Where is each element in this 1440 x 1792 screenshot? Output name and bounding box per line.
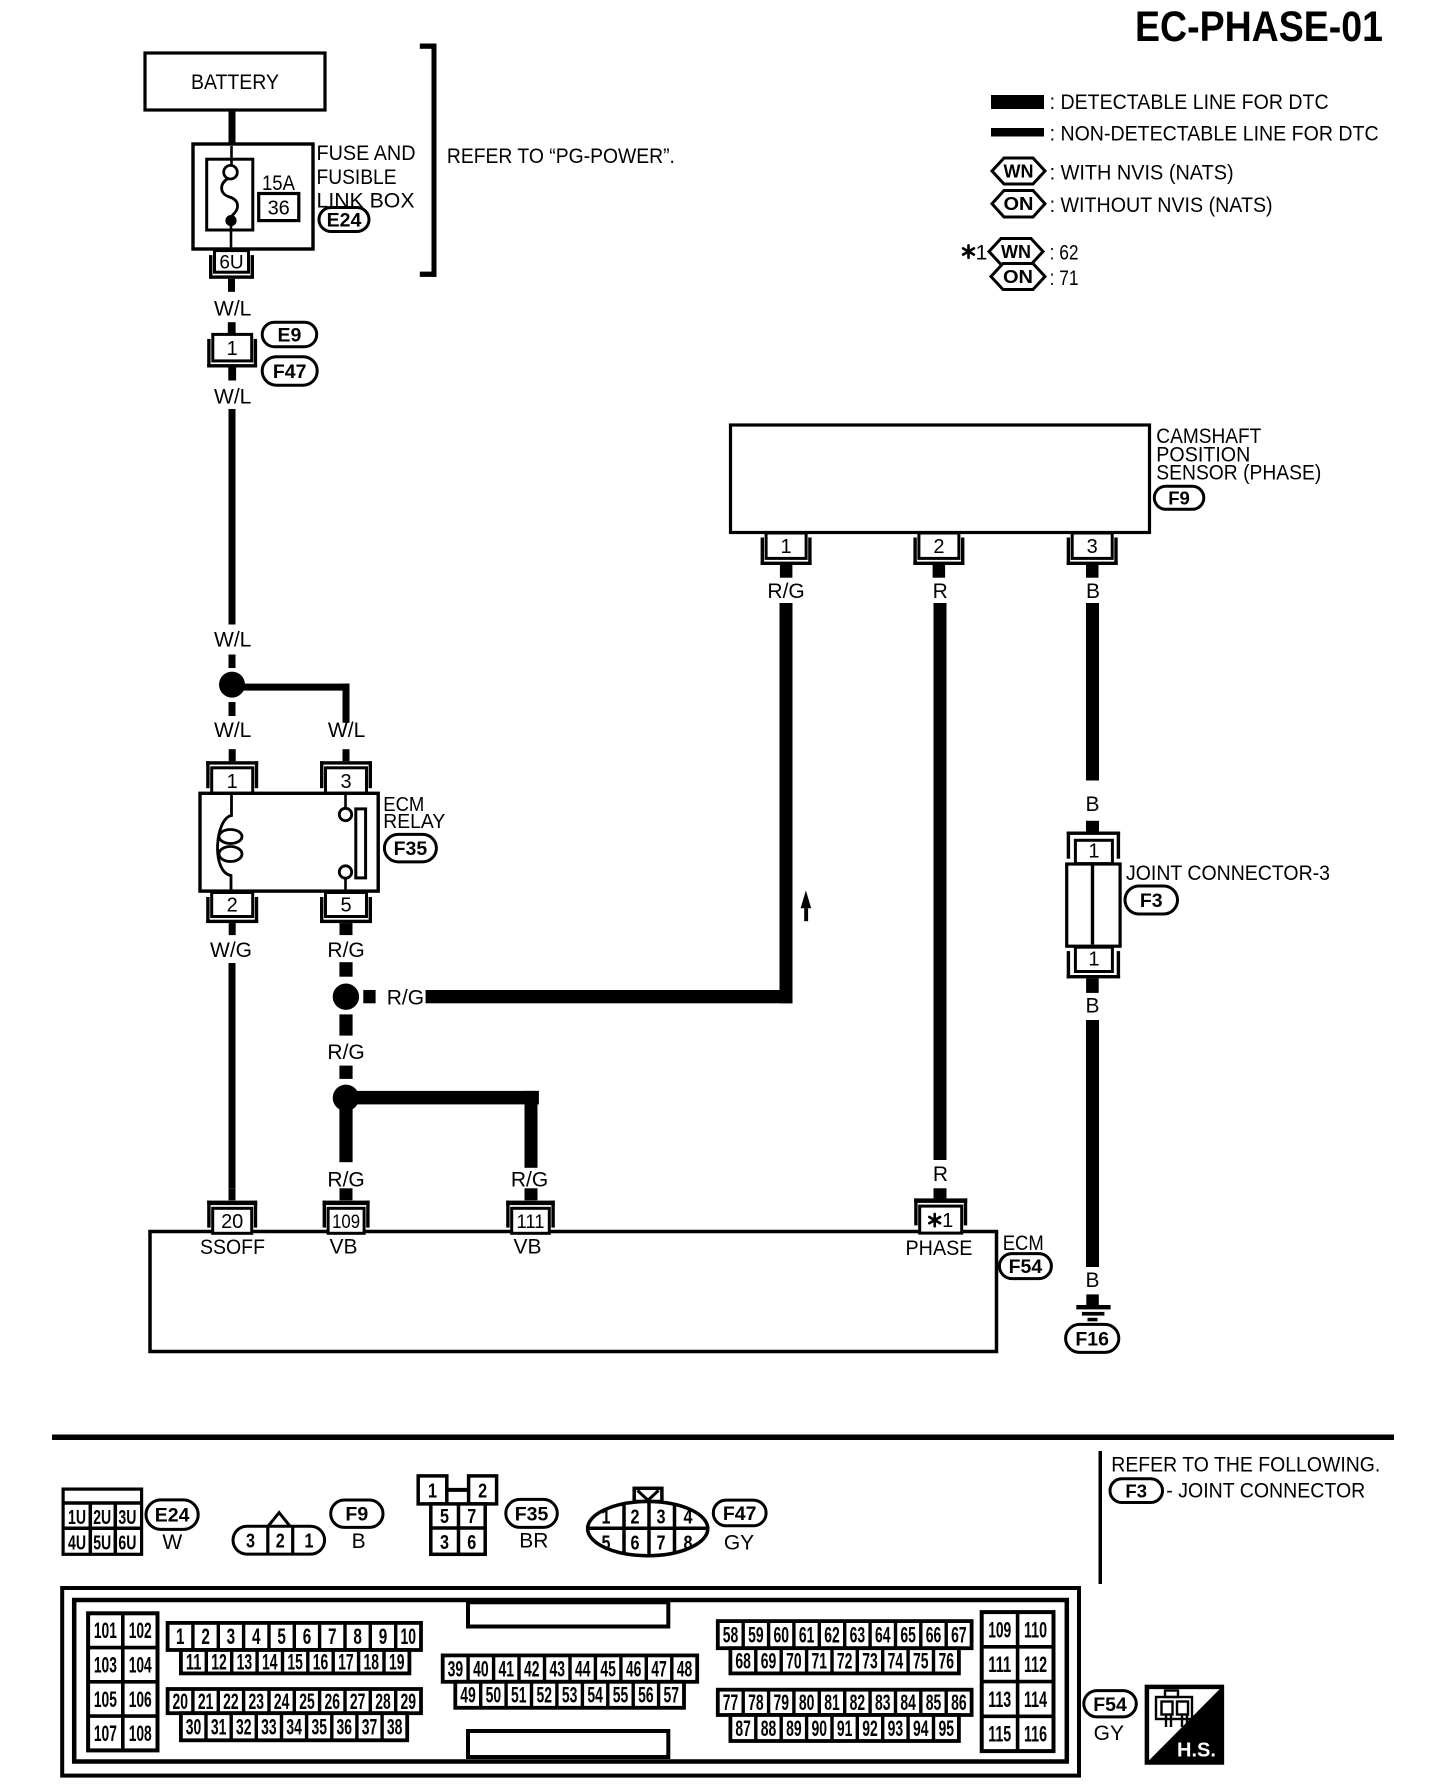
svg-text:3: 3: [246, 1531, 255, 1553]
connector E9/F47 pin 1: [213, 334, 252, 361]
svg-text:FUSIBLE: FUSIBLE: [317, 166, 397, 189]
svg-text:86: 86: [951, 1690, 967, 1715]
svg-text:1: 1: [781, 536, 792, 558]
svg-text:E9: E9: [277, 325, 301, 347]
relay pin 3: [326, 768, 367, 794]
svg-text:54: 54: [587, 1683, 603, 1708]
svg-text:R/G: R/G: [511, 1169, 548, 1192]
svg-text:20: 20: [221, 1211, 243, 1233]
svg-text:R/G: R/G: [327, 1169, 364, 1192]
svg-text:F47: F47: [723, 1503, 757, 1525]
wire W/L dash: [229, 655, 236, 669]
joint connector-3 F3: [1067, 832, 1120, 835]
svg-text:1: 1: [305, 1531, 314, 1553]
svg-text:15: 15: [287, 1650, 303, 1675]
svg-text:VB: VB: [513, 1236, 541, 1259]
svg-text:66: 66: [926, 1623, 942, 1648]
svg-text:F9: F9: [345, 1504, 368, 1526]
ECM pins 39-48: [443, 1655, 698, 1681]
wire W/L battery to fuse box: [229, 110, 236, 144]
svg-text:35: 35: [311, 1715, 327, 1740]
ECM pin 20 SSOFF: [229, 1188, 236, 1200]
ground symbol: [1076, 1305, 1110, 1309]
svg-text:1: 1: [602, 1506, 611, 1528]
svg-text:5: 5: [602, 1532, 611, 1554]
svg-text:R/G: R/G: [767, 580, 804, 603]
svg-text:F3: F3: [1125, 1480, 1147, 1501]
svg-text:91: 91: [837, 1716, 853, 1741]
svg-text:15A: 15A: [262, 172, 295, 195]
relay switch contacts: [344, 793, 347, 808]
separator line: [52, 1435, 1394, 1441]
legend: ON 71: [991, 264, 1045, 290]
svg-text:B: B: [352, 1530, 366, 1553]
F54 oval GY: [1084, 1691, 1137, 1717]
svg-text:1U: 1U: [68, 1507, 86, 1529]
connector face F35: [418, 1476, 447, 1504]
svg-text:109: 109: [332, 1212, 360, 1233]
wire W/L long segment: [229, 409, 236, 625]
svg-text:JOINT CONNECTOR-3: JOINT CONNECTOR-3: [1126, 862, 1330, 885]
svg-text:R: R: [933, 1163, 948, 1186]
wire R/G dash: [339, 962, 352, 977]
relay pin 2: [212, 893, 253, 917]
svg-text:103: 103: [94, 1653, 117, 1678]
svg-text:R: R: [933, 580, 948, 603]
fuse 15A 36: [207, 159, 253, 230]
svg-text:3: 3: [657, 1506, 666, 1528]
svg-text:77: 77: [723, 1690, 739, 1715]
svg-text:38: 38: [387, 1715, 403, 1740]
svg-text:65: 65: [900, 1623, 916, 1648]
svg-text:68: 68: [735, 1649, 751, 1674]
ECM pin 109 VB: [340, 1188, 353, 1200]
svg-text:21: 21: [198, 1689, 214, 1714]
legend: WN with NVIS (NATS): [992, 158, 1045, 184]
svg-text:H.S.: H.S.: [1177, 1740, 1216, 1762]
svg-text:1: 1: [976, 242, 988, 265]
svg-text:WN: WN: [1001, 242, 1031, 262]
svg-text:72: 72: [837, 1649, 853, 1674]
svg-text:GY: GY: [724, 1531, 754, 1554]
ECM pins 49-57: [455, 1682, 684, 1708]
wire R sensor pin 2 to ECM PHASE: [934, 603, 947, 1160]
svg-text:F47: F47: [273, 361, 307, 383]
svg-text:PHASE: PHASE: [906, 1237, 973, 1260]
svg-text:112: 112: [1024, 1652, 1047, 1677]
battery: [145, 53, 325, 110]
svg-text:33: 33: [261, 1715, 277, 1740]
connector 6U: [215, 251, 249, 273]
svg-text:11: 11: [186, 1650, 202, 1675]
svg-text:VB: VB: [329, 1236, 357, 1259]
svg-text:- JOINT CONNECTOR: - JOINT CONNECTOR: [1166, 1480, 1365, 1503]
svg-text:76: 76: [938, 1649, 954, 1674]
svg-text:45: 45: [600, 1656, 616, 1681]
ECM pins 58-67: [718, 1621, 972, 1648]
svg-text:25: 25: [299, 1689, 315, 1714]
svg-text:27: 27: [350, 1689, 366, 1714]
svg-text:F3: F3: [1140, 890, 1163, 912]
svg-text:3: 3: [340, 771, 351, 793]
svg-text:111: 111: [517, 1212, 545, 1233]
svg-text:3: 3: [440, 1532, 449, 1554]
svg-text:63: 63: [850, 1623, 866, 1648]
svg-text:95: 95: [938, 1716, 954, 1741]
svg-text:W/G: W/G: [210, 939, 252, 962]
legend: non-detectable line for DTC: [991, 128, 1044, 137]
ECM pin *1 PHASE: [934, 1188, 947, 1200]
svg-text:93: 93: [888, 1716, 904, 1741]
svg-text:67: 67: [951, 1623, 967, 1648]
svg-text:W/L: W/L: [328, 719, 365, 742]
svg-text:W/L: W/L: [214, 385, 251, 408]
svg-text:LINK BOX: LINK BOX: [317, 190, 415, 213]
svg-text:47: 47: [651, 1656, 667, 1681]
wire R/G dash below junction: [339, 1014, 352, 1035]
svg-text:W/L: W/L: [214, 298, 251, 321]
svg-text:44: 44: [575, 1656, 591, 1681]
relay pin 5: [326, 893, 367, 917]
fuse and fusible link box E24: [193, 144, 313, 249]
svg-text:1: 1: [176, 1624, 185, 1649]
svg-text:71: 71: [812, 1649, 828, 1674]
svg-text:30: 30: [186, 1715, 202, 1740]
svg-text:5: 5: [440, 1506, 449, 1528]
svg-text:109: 109: [988, 1617, 1011, 1642]
svg-text:111: 111: [988, 1652, 1011, 1677]
svg-text:1: 1: [227, 338, 238, 360]
svg-text:F54: F54: [1093, 1694, 1127, 1716]
svg-text:24: 24: [274, 1689, 290, 1714]
svg-text:85: 85: [926, 1690, 942, 1715]
connector face E24: [63, 1489, 142, 1554]
svg-text:37: 37: [362, 1715, 378, 1740]
svg-text:ON: ON: [1003, 267, 1033, 287]
svg-text:36: 36: [268, 198, 290, 220]
svg-text:49: 49: [460, 1683, 476, 1708]
ECM pins 11-19: [181, 1650, 410, 1673]
svg-text:W: W: [162, 1531, 182, 1554]
connector face F9: [268, 1513, 290, 1527]
svg-text:: WITHOUT NVIS (NATS): : WITHOUT NVIS (NATS): [1050, 193, 1273, 217]
ECM pin 111 VB: [525, 1188, 538, 1200]
svg-text:1: 1: [227, 771, 238, 793]
sensor pin 3: [1072, 533, 1112, 558]
svg-text:62: 62: [824, 1623, 840, 1648]
svg-text:29: 29: [401, 1689, 417, 1714]
ECM pins 68-76: [730, 1648, 959, 1673]
svg-text:: 71: : 71: [1050, 266, 1079, 290]
svg-text:F9: F9: [1168, 488, 1190, 509]
ground oval F16: [1066, 1324, 1119, 1352]
junction node R/G upper: [333, 984, 359, 1010]
svg-text:R/G: R/G: [387, 986, 424, 1009]
svg-text:57: 57: [664, 1683, 680, 1708]
svg-text:23: 23: [249, 1689, 265, 1714]
wire R/G dash right of junction: [363, 990, 375, 1003]
svg-text:82: 82: [850, 1690, 866, 1715]
ECM pins 30-38: [181, 1713, 407, 1740]
svg-text:40: 40: [473, 1656, 489, 1681]
svg-text:W/L: W/L: [214, 629, 251, 652]
svg-text:52: 52: [536, 1683, 552, 1708]
H.S. mark: [1147, 1687, 1222, 1763]
ECM pins 109-116: [982, 1612, 1054, 1751]
ECM pins 87-95: [730, 1715, 959, 1741]
svg-text:102: 102: [129, 1618, 152, 1643]
svg-text:8: 8: [353, 1624, 362, 1649]
svg-text:5: 5: [277, 1624, 286, 1649]
svg-text:RELAY: RELAY: [383, 810, 445, 833]
svg-text:2: 2: [631, 1506, 640, 1528]
svg-text:69: 69: [761, 1649, 777, 1674]
junction node W/L: [219, 672, 245, 698]
ECM pins 20-29: [168, 1689, 421, 1713]
svg-text:56: 56: [638, 1683, 654, 1708]
relay switch bar: [356, 809, 366, 878]
svg-text:B: B: [1085, 995, 1099, 1018]
svg-text:2: 2: [201, 1624, 210, 1649]
svg-text:: 62: : 62: [1050, 241, 1079, 265]
svg-text:FUSE AND: FUSE AND: [317, 142, 416, 165]
wire B joint connector to ground: [1086, 1020, 1099, 1267]
wire W/G to ECM pin 20: [229, 963, 236, 1188]
svg-text:22: 22: [223, 1689, 239, 1714]
svg-text:20: 20: [173, 1689, 189, 1714]
svg-text:42: 42: [524, 1656, 540, 1681]
svg-text:53: 53: [562, 1683, 578, 1708]
svg-text:34: 34: [286, 1715, 302, 1740]
svg-text:7: 7: [467, 1506, 476, 1528]
ECM pins 101-108: [88, 1613, 157, 1750]
svg-text:1: 1: [1088, 948, 1099, 970]
svg-text:5U: 5U: [93, 1532, 111, 1554]
svg-text:7: 7: [328, 1624, 337, 1649]
svg-text:R/G: R/G: [327, 1041, 364, 1064]
svg-text:79: 79: [773, 1690, 789, 1715]
svg-text:6U: 6U: [219, 253, 243, 274]
svg-text:31: 31: [211, 1715, 227, 1740]
legend: ON without NVIS (NATS): [992, 191, 1045, 218]
svg-text:7: 7: [657, 1532, 666, 1554]
ECM connector face F54 outer box: [62, 1588, 1079, 1776]
sensor pin 1: [766, 533, 806, 558]
svg-text:1: 1: [428, 1480, 437, 1502]
ECM connector face inner box: [74, 1600, 1067, 1762]
svg-text:R/G: R/G: [327, 939, 364, 962]
svg-text:73: 73: [862, 1649, 878, 1674]
svg-text:59: 59: [748, 1623, 764, 1648]
svg-text:10: 10: [401, 1624, 417, 1649]
svg-text:108: 108: [129, 1721, 152, 1746]
ECM box: [150, 1232, 997, 1352]
svg-text:46: 46: [626, 1656, 642, 1681]
svg-text:94: 94: [913, 1716, 929, 1741]
svg-text:60: 60: [773, 1623, 789, 1648]
sensor pin 2: [919, 533, 959, 558]
svg-text:F35: F35: [515, 1503, 549, 1525]
svg-text:75: 75: [913, 1649, 929, 1674]
relay pin 1: [212, 768, 253, 794]
svg-text:3: 3: [1087, 536, 1098, 558]
svg-text:3U: 3U: [118, 1507, 136, 1529]
svg-text:F54: F54: [1009, 1256, 1043, 1278]
svg-text:28: 28: [375, 1689, 391, 1714]
svg-text:ON: ON: [1004, 194, 1034, 214]
svg-text:E24: E24: [155, 1505, 190, 1527]
wire W/L stub: [228, 322, 236, 334]
svg-text:50: 50: [486, 1683, 502, 1708]
legend: detectable line for DTC: [991, 95, 1044, 109]
svg-text:74: 74: [888, 1649, 904, 1674]
svg-text:84: 84: [900, 1690, 916, 1715]
svg-text:6: 6: [467, 1532, 476, 1554]
ECM connector bottom notch: [468, 1731, 668, 1757]
svg-text:92: 92: [862, 1716, 878, 1741]
svg-text:115: 115: [988, 1722, 1011, 1747]
svg-text:70: 70: [786, 1649, 802, 1674]
svg-text:64: 64: [875, 1623, 891, 1648]
svg-text:106: 106: [129, 1687, 152, 1712]
svg-text:: WITH NVIS (NATS): : WITH NVIS (NATS): [1050, 161, 1234, 185]
svg-text:101: 101: [94, 1618, 117, 1643]
svg-text:SSOFF: SSOFF: [200, 1236, 265, 1259]
wire R/G to ECM pin 109: [339, 1108, 352, 1162]
svg-text:116: 116: [1024, 1722, 1047, 1747]
svg-text:B: B: [1085, 1269, 1099, 1292]
svg-text:SENSOR (PHASE): SENSOR (PHASE): [1156, 462, 1321, 485]
svg-text:B: B: [1085, 793, 1099, 816]
svg-text:9: 9: [379, 1624, 388, 1649]
wire R/G dash: [339, 1066, 352, 1079]
svg-text:F35: F35: [394, 838, 428, 860]
svg-text:REFER TO “PG-POWER”.: REFER TO “PG-POWER”.: [447, 145, 675, 168]
svg-text:107: 107: [94, 1721, 117, 1746]
svg-text:3: 3: [227, 1624, 236, 1649]
svg-text:80: 80: [799, 1690, 815, 1715]
svg-text:4: 4: [684, 1506, 694, 1528]
svg-text:E24: E24: [327, 210, 362, 232]
wire R/G branch to sensor pin 1: [426, 990, 793, 1003]
svg-text:WN: WN: [1004, 162, 1034, 182]
svg-text:REFER TO THE FOLLOWING.: REFER TO THE FOLLOWING.: [1111, 1453, 1380, 1476]
ECM pins 1-10: [168, 1623, 421, 1650]
svg-text:58: 58: [723, 1623, 739, 1648]
svg-text:90: 90: [812, 1716, 828, 1741]
svg-text:2: 2: [933, 536, 944, 558]
svg-text:: DETECTABLE LINE FOR DTC: : DETECTABLE LINE FOR DTC: [1050, 90, 1329, 114]
svg-text:18: 18: [364, 1650, 380, 1675]
svg-text:17: 17: [338, 1650, 354, 1675]
svg-text:41: 41: [499, 1656, 515, 1681]
svg-text:2U: 2U: [93, 1507, 111, 1529]
svg-text:43: 43: [549, 1656, 565, 1681]
svg-text:113: 113: [988, 1687, 1011, 1712]
svg-text:4U: 4U: [68, 1532, 86, 1554]
svg-text:8: 8: [684, 1532, 693, 1554]
camshaft position sensor (phase) box: [731, 425, 1150, 533]
svg-text:105: 105: [94, 1687, 117, 1712]
svg-text:1: 1: [1088, 841, 1099, 863]
svg-text:6U: 6U: [118, 1532, 136, 1554]
svg-text:32: 32: [236, 1715, 252, 1740]
svg-text:104: 104: [129, 1653, 152, 1678]
svg-text:19: 19: [389, 1650, 405, 1675]
junction node R/G lower: [333, 1085, 359, 1111]
svg-text:51: 51: [511, 1683, 527, 1708]
svg-text:5: 5: [340, 895, 351, 917]
svg-text:ECM: ECM: [1003, 1232, 1044, 1255]
svg-text:W/L: W/L: [214, 719, 251, 742]
svg-text:88: 88: [761, 1716, 777, 1741]
ECM connector top notch: [468, 1602, 668, 1626]
svg-text:110: 110: [1024, 1617, 1047, 1642]
svg-text:2: 2: [276, 1531, 285, 1553]
svg-text:78: 78: [748, 1690, 764, 1715]
svg-text:48: 48: [677, 1656, 693, 1681]
H.S. connector icon: [1156, 1691, 1192, 1728]
connector face F47: [634, 1488, 662, 1501]
legend: *1 WN 62: [963, 245, 974, 257]
svg-text:12: 12: [211, 1650, 227, 1675]
svg-text:55: 55: [613, 1683, 629, 1708]
svg-text:B: B: [1086, 580, 1100, 603]
wire W/L dash below junction: [229, 702, 236, 716]
wire W/L branch to relay pin 3: [232, 684, 350, 691]
svg-text:16: 16: [313, 1650, 329, 1675]
svg-text:114: 114: [1024, 1687, 1047, 1712]
svg-text:36: 36: [337, 1715, 353, 1740]
relay coil: [218, 793, 232, 891]
svg-text:2: 2: [227, 895, 238, 917]
svg-text:GY: GY: [1094, 1722, 1124, 1745]
svg-text:F16: F16: [1075, 1328, 1109, 1350]
wire R/G branch to ECM pin 111: [346, 1091, 539, 1105]
svg-text:13: 13: [237, 1650, 253, 1675]
footnote divider line: [1099, 1451, 1103, 1584]
svg-text:26: 26: [325, 1689, 341, 1714]
svg-text:1: 1: [942, 1210, 953, 1232]
svg-text:4: 4: [252, 1624, 261, 1649]
svg-text:2: 2: [478, 1480, 487, 1502]
svg-text:83: 83: [875, 1690, 891, 1715]
svg-text:BATTERY: BATTERY: [191, 71, 279, 94]
svg-text:87: 87: [735, 1716, 751, 1741]
ECM relay F35: [200, 793, 378, 891]
svg-text:6: 6: [631, 1532, 640, 1554]
svg-text:6: 6: [303, 1624, 312, 1649]
svg-text:EC-PHASE-01: EC-PHASE-01: [1135, 3, 1383, 51]
flow arrow up: [801, 891, 812, 909]
svg-text:14: 14: [262, 1650, 278, 1675]
refer to PG-POWER bracket: [420, 44, 437, 49]
svg-text:61: 61: [799, 1623, 815, 1648]
wire B sensor pin 3 to joint connector: [1086, 603, 1099, 781]
svg-text:BR: BR: [519, 1530, 548, 1553]
svg-text:81: 81: [824, 1690, 840, 1715]
svg-text:: NON-DETECTABLE LINE FOR DTC: : NON-DETECTABLE LINE FOR DTC: [1050, 122, 1379, 146]
ECM pins 77-86: [718, 1690, 972, 1715]
svg-text:39: 39: [448, 1656, 464, 1681]
svg-text:89: 89: [786, 1716, 802, 1741]
